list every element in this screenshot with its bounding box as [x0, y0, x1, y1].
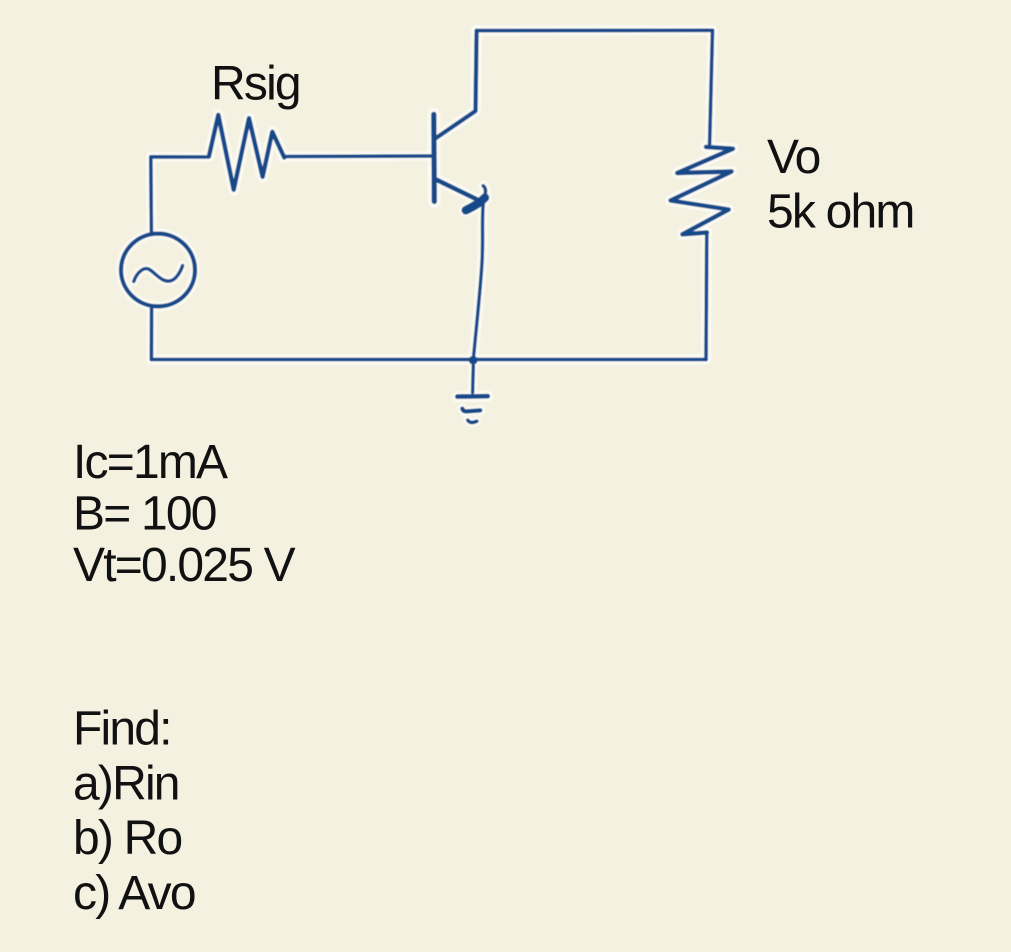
- svg-text:Ic=1mA: Ic=1mA: [73, 436, 228, 489]
- wire: Rsig to transistor base: [284, 154, 433, 158]
- ground bar 2: [462, 409, 480, 412]
- svg-text:a)Rin: a)Rin: [73, 757, 179, 810]
- svg-text:c) Avo: c) Avo: [73, 867, 195, 920]
- svg-text:Vt=0.025 V: Vt=0.025 V: [73, 539, 296, 592]
- transistor Q1 collector and wire up: [434, 31, 477, 140]
- resistor Rsig: [209, 115, 284, 190]
- transistor Q1 base bar: [431, 114, 437, 201]
- transistor Q1 emitter diagonal: [435, 179, 479, 200]
- wire: emitter to ground junction: [473, 186, 485, 359]
- wire: right vertical bottom: [704, 233, 708, 360]
- voltage source sine wave: [134, 266, 183, 282]
- svg-text:Vo: Vo: [767, 131, 820, 184]
- ground bar 1: [457, 394, 488, 399]
- wire: source bottom to bottom rail: [150, 307, 154, 360]
- ground bar 3: [468, 420, 477, 422]
- ground stub: [471, 366, 475, 393]
- voltage source V1 circle: [121, 234, 195, 307]
- wire: top rail: [477, 28, 713, 32]
- svg-text:Rsig: Rsig: [211, 58, 300, 111]
- svg-text:Find:: Find:: [73, 702, 171, 755]
- wire: top-left corner (source to Rsig): [151, 157, 209, 234]
- svg-text:b) Ro: b) Ro: [73, 812, 181, 865]
- junction blob: [469, 356, 478, 365]
- svg-text:B= 100: B= 100: [73, 487, 216, 540]
- wire: bottom rail: [151, 358, 706, 362]
- svg-text:5k ohm: 5k ohm: [767, 185, 914, 238]
- halo underlay: [121, 30, 733, 422]
- emitter arrowhead: [466, 198, 485, 211]
- wire: right vertical top: [710, 30, 713, 144]
- resistor RL 5k ohm: [671, 147, 733, 234]
